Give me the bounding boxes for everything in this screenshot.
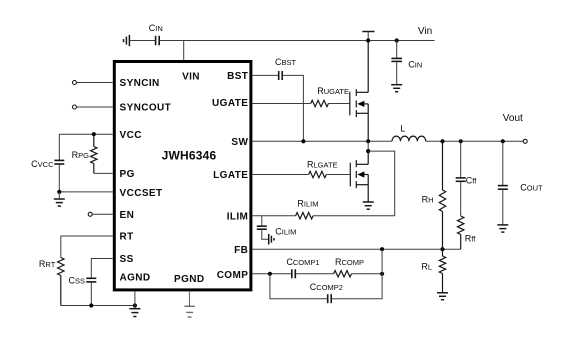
svg-text:RH: RH [422,194,434,204]
svg-text:LGATE: LGATE [213,170,248,181]
ground (top-left, rotated left) [124,35,130,47]
resistor RILIM [296,213,314,219]
svg-text:CSS: CSS [68,275,85,285]
drain tab bar (Q1 at Vin rail) [362,31,374,33]
wire: SYNCIN [77,82,113,84]
svg-text:AGND: AGND [120,273,151,284]
wire: CVCC bottom to VCCSET node [58,164,60,192]
wire: FB pin bus [252,248,460,250]
wire: SW down to Q2 drain node [367,141,369,154]
svg-text:COUT: COUT [520,183,543,193]
node: CBST at SW [301,139,305,143]
svg-text:SW: SW [231,137,248,148]
capacitor CILIM [257,216,268,240]
wire: SS to CSS [91,259,113,279]
capacitor CCOMP1 [292,269,296,278]
node: SW switch node [366,139,370,143]
ground (PGND) [184,306,194,317]
wire: CCOMP1 to RCOMP [296,273,334,275]
transistor Q2 (low-side NMOS) [350,151,368,202]
svg-text:RUGATE: RUGATE [317,86,349,96]
resistor RPG [91,134,97,173]
svg-text:VCC: VCC [120,130,142,141]
wire: CCOMP2 branch right [332,274,382,299]
wire: RPG to PG pin [94,172,113,174]
ground (CILIM, rotated right) [269,234,274,245]
svg-text:SYNCOUT: SYNCOUT [120,103,172,114]
op-amp/IC U1 JWH6346 box [114,62,251,290]
svg-text:SS: SS [120,254,134,265]
node: CIN at Vin rail [395,38,399,42]
svg-text:L: L [400,124,405,134]
resistor Rff [458,216,464,249]
node: COUT at Vout [501,139,505,143]
wire: ILIM sense loop (right and down) [313,151,395,216]
terminal EN [88,212,92,216]
wire: LGATE pin to RLGATE [252,174,308,176]
capacitor CSS [86,278,96,305]
svg-text:SYNCIN: SYNCIN [120,78,160,89]
wire: COMP pin to CCOMP1 [252,273,291,275]
svg-text:UGATE: UGATE [212,98,248,109]
node: RH at Vout [440,139,444,143]
capacitor CVCC [54,160,64,164]
wire: bottom bus RRT/CSS to AGND [61,305,135,307]
node: CVCC/VCCSET junction [57,190,61,194]
node: COMP pin junction [268,272,272,276]
wire: UGATE pin to RUGATE [252,103,310,105]
svg-text:VCCSET: VCCSET [120,188,163,199]
node: divider tap at FB [440,247,444,251]
wire: PGND pin drop [189,291,191,306]
node: AGND junction [133,303,137,307]
svg-text:ILIM: ILIM [227,211,249,222]
svg-text:RL: RL [421,262,432,272]
svg-text:BST: BST [227,71,248,82]
capacitor C_IN (top-left, in series) [156,36,160,46]
terminal Vout [523,139,527,143]
node: CSS bottom junction [89,303,93,307]
ground (below CIN right) [391,85,402,92]
wire: EN [92,213,113,215]
svg-text:CIN: CIN [149,23,163,33]
svg-text:CCOMP1: CCOMP1 [286,257,319,267]
svg-text:RILIM: RILIM [297,198,318,208]
wire: riser COMP net to FB [381,249,383,274]
svg-text:JWH6346: JWH6346 [162,149,217,163]
svg-text:CBST: CBST [275,57,297,67]
ground (AGND) [129,309,140,317]
wire: ILIM pin to RILIM [252,215,295,217]
wire: AGND pin drop [134,291,136,309]
capacitor Cff [456,141,466,216]
resistor RRT [58,258,64,306]
ground (below CVCC) [54,192,65,206]
capacitor COUT [498,141,508,225]
resistor RCOMP [334,271,352,277]
svg-text:RPG: RPG [72,150,90,160]
wire: SW pin to inductor [252,140,392,142]
wire: VCC to CVCC [59,134,113,160]
terminal SYNCIN [73,81,77,85]
svg-text:CILIM: CILIM [275,226,296,236]
svg-text:Cff: Cff [466,176,477,186]
svg-text:RLGATE: RLGATE [307,159,338,169]
ground (below COUT) [497,225,508,232]
transistor Q1 (high-side NMOS) [350,41,368,142]
capacitor CBST [279,71,283,80]
wire: VCCSET [59,191,113,193]
wire: RT to RRT [61,236,113,258]
svg-text:CIN: CIN [408,59,422,69]
resistor RUGATE [311,100,329,106]
terminal SYNCOUT [73,105,77,109]
node: RCOMP output junction [380,272,384,276]
wire: Vin rail (CIN to rail end) [160,40,435,42]
wire: BST pin to CBST [252,74,278,76]
wire: RCOMP to FB riser [352,273,383,275]
resistor RL [439,249,445,293]
svg-text:RCOMP: RCOMP [335,257,364,267]
node: Cff at Vout [459,139,463,143]
wire: CBST to SW node [283,75,304,141]
svg-text:CCOMP2: CCOMP2 [310,282,343,292]
svg-text:PGND: PGND [174,274,205,285]
capacitor CIN (right, Vin decoupling) [391,41,402,85]
ground (Q2 source) [363,202,374,209]
svg-text:PG: PG [120,169,135,180]
wire: CCOMP2 branch left [270,274,327,299]
node: COMP network at FB [380,247,384,251]
resistor RLGATE [309,171,327,177]
node: Q2 drain / ILIM sense [366,149,370,153]
svg-text:Vin: Vin [418,26,432,37]
wire: SYNCOUT [77,106,113,108]
svg-text:CVCC: CVCC [31,159,54,169]
svg-text:COMP: COMP [217,270,249,281]
inductor L [392,136,426,141]
node: Q1 drain at Vin rail [366,38,370,42]
wire: RLGATE to Q2 gate [326,174,350,176]
svg-text:RT: RT [120,232,134,243]
node: VCC/RPG junction [92,132,96,136]
wire: VIN pin drop [183,41,185,62]
svg-text:Rff: Rff [465,233,476,243]
svg-text:RRT: RRT [39,259,56,269]
resistor RH [439,141,445,249]
svg-text:VIN: VIN [182,72,200,83]
capacitor CCOMP2 [328,294,332,303]
ground (below RL) [437,293,448,300]
svg-text:EN: EN [120,210,135,221]
svg-text:FB: FB [234,245,248,256]
wire: RUGATE to Q1 gate [328,103,349,105]
svg-text:Vout: Vout [503,113,523,124]
wire: Vout rail [426,140,523,142]
wire: top-left ground to CIN [129,40,155,42]
